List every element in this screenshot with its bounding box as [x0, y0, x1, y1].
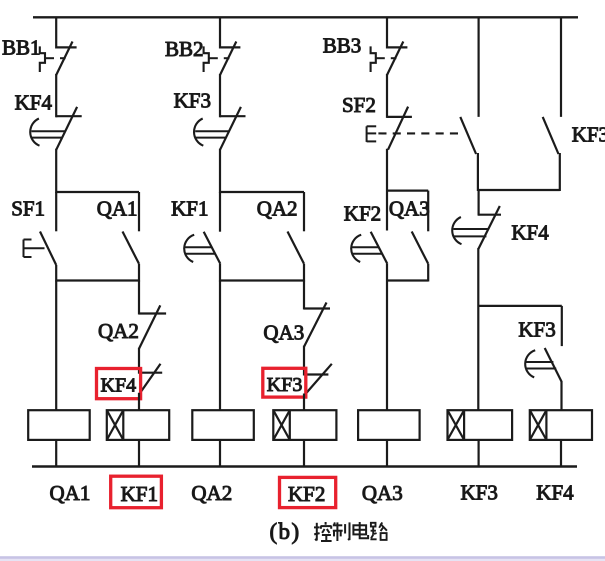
wire branch2 to coil [219, 281, 221, 411]
svg-text:QA2: QA2 [191, 481, 232, 505]
coil KF1 [107, 410, 169, 440]
wire junction bar1 top [56, 191, 139, 193]
contact BB1 (NC overload) [56, 42, 76, 76]
svg-text:QA2: QA2 [98, 319, 139, 343]
svg-text:QA3: QA3 [389, 197, 430, 221]
label KF1 mid [171, 197, 208, 221]
svg-text:KF4: KF4 [511, 221, 549, 245]
wire BB3-SF2 [386, 74, 388, 118]
wire branch3 to coil [386, 264, 388, 411]
contact BB2 (NC overload) [220, 42, 240, 76]
label KF3 b2 [174, 89, 211, 113]
red box KF1 [111, 476, 162, 508]
contact KF4 (NC aux, highlighted) [139, 364, 162, 394]
contact QA1 (NO aux) [123, 232, 140, 264]
wire QA1 leg bottom [138, 264, 140, 282]
svg-text:BB2: BB2 [165, 37, 204, 61]
wire QA2 leg bottom [303, 264, 305, 282]
wire top bus L+ [33, 16, 578, 18]
label QA3 mid [263, 321, 304, 345]
contact KF3 (NO aux) [543, 117, 559, 154]
label SF2 [342, 93, 376, 117]
wire branch4 below contact [477, 153, 479, 191]
label KF2 coil [288, 482, 325, 506]
coil KF2 [273, 410, 336, 440]
footer divider bar [0, 556, 605, 561]
label KF4 right [511, 221, 549, 245]
wire KF3 leg to coil [560, 381, 562, 411]
wire branch5 drop [560, 17, 562, 117]
label QA2 [257, 197, 298, 221]
wire coil QA1 to bus [55, 440, 57, 467]
wire SF2-KF2 [386, 149, 388, 231]
label SF1 [11, 197, 45, 221]
wire coil QA2 to bus [219, 440, 221, 467]
wire coil KF2 to bus [303, 440, 305, 467]
svg-text:KF3: KF3 [461, 481, 498, 505]
wire bottom bus [32, 465, 577, 467]
wire KF1 leg bottom [219, 264, 221, 282]
svg-text:BB1: BB1 [2, 36, 41, 60]
wire BB2-KF3 [219, 74, 221, 117]
thermal element BB2 [204, 46, 230, 72]
svg-text:KF3: KF3 [267, 374, 303, 396]
wire KF4-junction [55, 149, 57, 193]
svg-text:SF2: SF2 [342, 93, 376, 117]
contact QA3 (NO aux) [412, 232, 429, 264]
svg-text:KF4: KF4 [536, 481, 574, 505]
thermal element BB3 [371, 46, 397, 72]
wire QA3 leg bottom [427, 264, 429, 282]
coil QA2 [192, 410, 254, 440]
label QA1 [97, 197, 138, 221]
svg-text:KF3: KF3 [174, 89, 211, 113]
wire KF3 leg [561, 306, 563, 346]
wire leg1 down [138, 281, 140, 315]
label QA1 coil [50, 481, 91, 505]
svg-text:QA1: QA1 [97, 197, 138, 221]
contact KF3 (NC aux, highlighted) [304, 364, 332, 395]
wire branch1 drop [55, 17, 57, 48]
contact QA2 (NC aux) [139, 305, 166, 349]
coil KF4 [530, 410, 592, 440]
svg-text:KF1: KF1 [171, 197, 208, 221]
svg-text:KF4: KF4 [15, 91, 53, 115]
label KF4 coil [536, 481, 574, 505]
wire QA2 leg top [303, 192, 305, 231]
label KF4 mid [101, 375, 137, 397]
contact KF4 (NC delayed right) [452, 206, 501, 249]
svg-text:KF2: KF2 [288, 482, 325, 506]
pushbutton SF2 (NC) [367, 107, 412, 150]
label caption char dian [353, 522, 368, 538]
wire branch5 below contact [559, 153, 561, 191]
contact QA2 (NO aux) [288, 232, 305, 264]
svg-text:KF3: KF3 [518, 318, 555, 342]
contact QA3 (NC aux) [304, 303, 330, 347]
wire KF3-coil KF2 [303, 394, 305, 411]
label KF3 top right [572, 123, 605, 147]
wire junction bar2 top [220, 191, 304, 193]
wire QA3 leg top [427, 191, 429, 232]
svg-text:KF1: KF1 [121, 482, 158, 506]
wire leg2 down [303, 281, 305, 310]
red box KF4 [97, 369, 141, 399]
label caption (b) [270, 519, 301, 544]
svg-text:(b): (b) [270, 519, 301, 544]
contact KF3 (NC delayed) [194, 107, 245, 150]
wire junction bar2 bottom [220, 279, 304, 281]
contact BB3 (NC overload) [387, 42, 407, 76]
contact KF1 (NO delayed) [184, 232, 220, 264]
coil KF3 [448, 410, 513, 440]
wire branch4 drop [478, 17, 480, 117]
pushbutton SF1 (NO) [24, 232, 57, 266]
label QA2 mid [98, 319, 139, 343]
label KF2 mid [344, 202, 381, 226]
wire coil KF1 to bus [138, 440, 140, 467]
svg-text:QA3: QA3 [263, 321, 304, 345]
wire QA2-KF4 [138, 348, 140, 374]
wire junction bar3 bottom [387, 279, 428, 281]
svg-text:KF2: KF2 [344, 202, 381, 226]
label KF3 mid [267, 374, 303, 396]
wire KF3-junction [219, 149, 221, 193]
wire SF1 leg top [55, 192, 57, 231]
wire coil KF3 to bus [478, 440, 480, 467]
wire branch1 to coil [55, 281, 57, 411]
label caption char lu [370, 522, 387, 539]
wire branch2 drop [219, 17, 221, 48]
svg-text:QA2: QA2 [257, 197, 298, 221]
coil QA3 [358, 410, 420, 440]
wire bar-KF4 [478, 190, 480, 216]
wire SF1 leg bottom [55, 265, 57, 282]
coil QA1 [28, 410, 89, 440]
label BB1 [2, 36, 41, 60]
label caption char kong [314, 522, 332, 541]
wire junction bar right [478, 189, 560, 191]
label caption char zhi [333, 522, 350, 541]
label KF3 right [518, 318, 555, 342]
svg-text:KF4: KF4 [101, 375, 137, 397]
thermal element BB1 [40, 46, 66, 72]
svg-text:QA1: QA1 [50, 481, 91, 505]
wire junction bar right 2 [479, 305, 562, 307]
wire KF4-coil KF1 [138, 393, 140, 411]
label BB2 [165, 37, 204, 61]
label KF3 coil [461, 481, 498, 505]
wire branch4 to coil [477, 248, 479, 410]
label KF4 [15, 91, 53, 115]
wire KF1 leg top [219, 192, 221, 232]
wire coil QA3 to bus [386, 440, 388, 467]
wire BB1-KF4 [55, 74, 57, 117]
wire dashed linkage [378, 132, 458, 134]
contact KF2 (NO delayed) [351, 232, 387, 264]
contact KF3 (NO delayed right) [525, 348, 561, 382]
red box KF2 [280, 477, 336, 507]
svg-text:KF3: KF3 [572, 123, 605, 147]
label QA3 [389, 197, 430, 221]
label KF1 coil [121, 482, 158, 506]
contact SF2-linked (NO) [460, 117, 476, 154]
label QA3 coil [362, 481, 403, 505]
contact KF4 (NC delayed) [30, 107, 81, 150]
wire QA3-KF3 [303, 346, 305, 376]
wire branch3 drop [386, 17, 388, 48]
wire QA1 leg top [138, 192, 140, 231]
svg-text:BB3: BB3 [323, 34, 362, 58]
red box KF3 [263, 368, 306, 397]
label QA2 coil [191, 481, 232, 505]
wire coil KF4 to bus [560, 440, 562, 467]
wire junction bar1 bottom [56, 279, 139, 281]
svg-text:QA3: QA3 [362, 481, 403, 505]
label BB3 [323, 34, 362, 58]
svg-text:SF1: SF1 [11, 197, 45, 221]
wire junction bar3 top [387, 190, 428, 192]
